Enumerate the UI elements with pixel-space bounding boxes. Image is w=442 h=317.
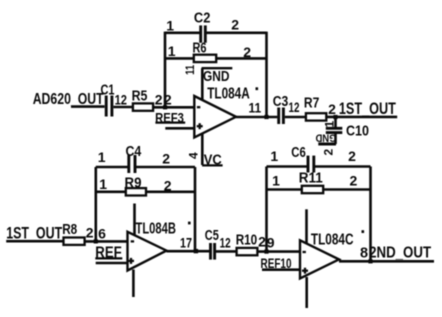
svg-text:R11: R11 [299,170,323,186]
svg-text:2ND_OUT: 2ND_OUT [369,245,431,262]
wire R8 to op-amp pin 6 [85,240,128,243]
op-amp U1C TL084C [300,230,368,278]
capacitor C6 [270,145,356,173]
svg-text:R5: R5 [132,88,148,104]
wire C10 to GND bar [334,133,337,144]
resistor R8 [62,222,93,245]
svg-text:GND: GND [203,69,230,85]
wire op-amp B top power stub [133,204,136,236]
wire GND stub [201,68,204,100]
svg-text:2: 2 [164,177,172,193]
wire REF to op-amp pin 5 [96,262,128,265]
svg-text:12: 12 [289,100,300,115]
svg-text:R7: R7 [304,96,319,112]
svg-text:1: 1 [98,149,106,165]
svg-text:1: 1 [99,176,107,192]
wire REF to op-amp pin 3 [165,127,194,130]
svg-text:2: 2 [350,172,358,188]
resistor R6 [168,41,252,63]
net VC [202,153,223,169]
wire 1ST_OUT to R8 [6,240,64,243]
svg-text:R9: R9 [125,176,142,192]
svg-text:C6: C6 [291,145,306,161]
wire R6 row [165,57,194,60]
wire C1 to R5 [114,106,134,109]
wire R11 row [267,188,303,191]
net AD620_OUT [33,91,104,108]
wire AD620_OUT to C1 [71,105,105,108]
node A output junction [264,115,268,119]
wire op-amp C bottom power stub [305,277,308,308]
svg-text:GND: GND [315,132,336,144]
wire feedback box C top [267,165,307,168]
svg-text:R10: R10 [236,232,258,248]
wire R9 row [96,191,126,194]
svg-text:2: 2 [243,44,251,60]
svg-text:TL084B: TL084B [136,220,176,237]
svg-text:17: 17 [180,236,192,251]
node A inverting junction [163,105,167,109]
wire op-amp C top power stub [305,209,308,243]
capacitor C2 [166,11,239,43]
svg-text:R6: R6 [193,41,207,57]
wire R7 to 1ST_OUT [326,116,397,119]
svg-text:2: 2 [162,151,170,167]
svg-text:2: 2 [86,224,94,240]
svg-text:11: 11 [183,65,197,75]
wire C5 to R10 [216,250,237,253]
wire VC stub [201,133,204,165]
svg-text:C2: C2 [194,11,211,27]
wire feedback box A left vertical [164,32,167,108]
wire op-amp A output [236,116,277,119]
svg-text:2: 2 [258,234,266,250]
capacitor C3 [273,94,300,124]
resistor R9 [99,176,172,196]
svg-text:2: 2 [348,148,356,164]
svg-text:1: 1 [272,172,280,188]
svg-text:2: 2 [231,17,239,33]
net REF3 [155,109,185,125]
wire feedback box B top [96,166,128,169]
svg-text:1: 1 [166,17,174,33]
wire feedback box A top [165,31,200,34]
svg-text:C1: C1 [101,83,115,99]
wire op-amp C output [339,260,434,263]
svg-text:C5: C5 [205,228,219,244]
wire stub to C10 [334,117,337,128]
svg-text:9: 9 [267,235,275,251]
svg-text:1: 1 [168,43,176,59]
wire R5 to op-amp pin 2 [153,106,194,109]
op-amp U1A TL084A [194,85,261,137]
wire feedback box C right vertical [369,167,372,262]
capacitor C5 [205,228,231,260]
wire feedback box A right vertical [265,32,268,117]
capacitor C1 [101,83,128,117]
op-amp U1B TL084B [128,220,193,270]
svg-text:C3: C3 [273,94,289,110]
svg-text:12: 12 [220,236,231,251]
capacitor C4 [98,144,171,173]
ground GND power port [315,132,336,145]
wire C3 to R7 [285,116,307,119]
wire op-amp B output [167,250,210,253]
resistor R5 [132,88,163,111]
capacitor C10 [322,121,370,156]
svg-text:C4: C4 [126,144,142,160]
svg-text:4: 4 [187,152,201,159]
svg-text:8: 8 [360,246,368,262]
wire feedback box B left vertical [95,167,98,241]
node C inverting junction [264,250,268,254]
svg-text:1: 1 [270,148,278,164]
node B output junction [194,249,198,253]
wire feedback box B right vertical [194,167,197,251]
wire op-amp B bottom power stub [132,270,135,298]
node B inverting junction [94,239,98,243]
svg-text:TL084C: TL084C [311,231,354,248]
svg-text:12: 12 [115,92,128,108]
svg-text:2: 2 [328,101,336,117]
svg-text:11: 11 [249,101,262,116]
node C10 tap [333,115,337,119]
GND net label [202,68,233,85]
net REF10 [261,255,301,271]
svg-text:R8: R8 [62,222,77,238]
svg-text:2: 2 [322,149,336,156]
svg-text:6: 6 [98,226,106,242]
net REF [95,244,122,261]
svg-text:1ST_OUT: 1ST_OUT [339,100,396,118]
svg-text:TL084A: TL084A [207,85,250,102]
resistor R11 [272,170,357,193]
wire R10 to op-amp pin 9 [257,250,300,253]
svg-text:1: 1 [323,121,337,128]
resistor R7 [304,96,336,121]
svg-text:2: 2 [155,91,163,107]
node C output junction [368,259,372,263]
svg-text:1ST_OUT: 1ST_OUT [6,224,62,242]
wire feedback box C left vertical [265,167,268,252]
svg-text:C10: C10 [346,122,369,139]
resistor R10 [236,232,266,255]
